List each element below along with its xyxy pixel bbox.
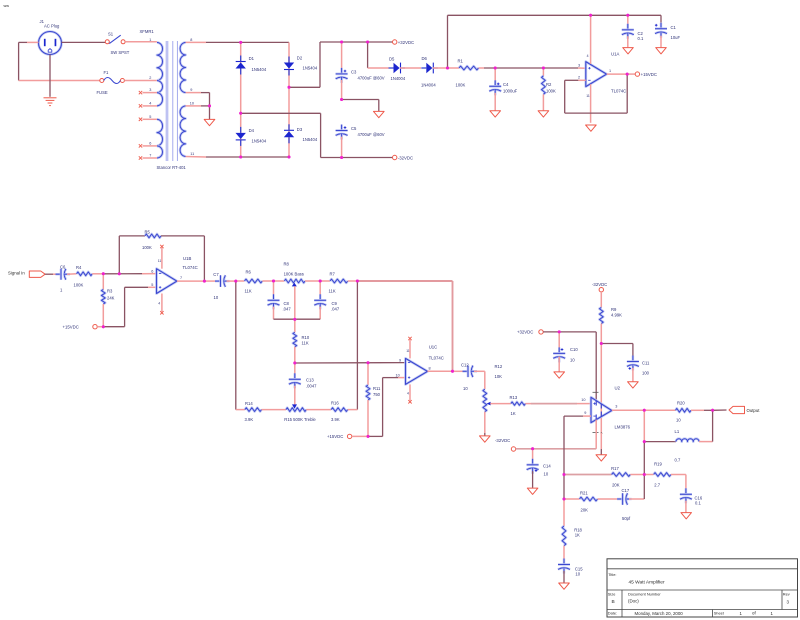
svg-text:3: 3 [149,88,151,92]
svg-text:7: 7 [180,276,182,280]
svg-text:-32VDC: -32VDC [398,155,413,160]
svg-text:Monday, March 20, 2000: Monday, March 20, 2000 [635,611,684,616]
svg-text:C7: C7 [213,272,219,277]
svg-text:U1C: U1C [429,344,438,349]
svg-text:B: B [612,599,615,605]
svg-text:4: 4 [407,392,409,396]
svg-text:C11: C11 [642,361,650,366]
svg-text:7: 7 [149,154,151,158]
svg-text:C8: C8 [284,301,290,306]
svg-text:100: 100 [642,370,650,375]
svg-text:D1: D1 [249,56,255,61]
svg-text:100K Bass: 100K Bass [284,271,304,276]
svg-text:R3: R3 [107,289,113,294]
svg-text:R19: R19 [654,462,662,467]
svg-text:R5: R5 [145,230,151,235]
svg-text:4700uF @60V: 4700uF @60V [358,132,385,137]
svg-text:R17: R17 [611,466,619,471]
svg-text:C9: C9 [332,301,338,306]
svg-text:100K: 100K [142,245,152,250]
svg-text:R7: R7 [330,272,336,277]
svg-text:TL074C: TL074C [429,356,444,361]
svg-text:D6: D6 [422,56,428,61]
svg-text:.047: .047 [283,306,292,311]
svg-text:1000uF: 1000uF [503,88,518,93]
svg-text:ww: ww [4,4,10,8]
svg-text:1N5404: 1N5404 [252,139,267,144]
svg-text:C13: C13 [306,377,314,382]
svg-text:5: 5 [151,283,153,287]
svg-text:5: 5 [149,115,151,119]
svg-text:L1: L1 [675,429,680,434]
svg-text:.0047: .0047 [306,383,317,388]
svg-text:1N5404: 1N5404 [252,67,267,72]
svg-text:C17: C17 [622,488,630,493]
svg-text:Signal In: Signal In [8,270,25,275]
svg-text:10uF: 10uF [671,35,681,40]
svg-text:(Doc): (Doc) [628,599,639,604]
svg-text:11K: 11K [245,289,252,294]
svg-text:1K: 1K [575,533,580,538]
svg-text:1N5404: 1N5404 [303,137,318,142]
svg-text:C10: C10 [570,347,578,352]
svg-text:C4: C4 [503,82,509,87]
svg-text:50pf: 50pf [622,516,631,521]
svg-text:Date:: Date: [608,610,617,615]
svg-text:10: 10 [570,357,575,362]
svg-text:XFMR1: XFMR1 [140,29,155,34]
svg-text:R11: R11 [373,386,381,391]
svg-text:11: 11 [586,94,590,98]
svg-text:R20: R20 [677,401,685,406]
svg-text:R4: R4 [76,265,82,270]
svg-text:4700uF @60V: 4700uF @60V [358,75,385,80]
svg-text:10: 10 [544,472,549,477]
svg-text:-32VDC: -32VDC [592,282,607,287]
svg-text:3: 3 [615,405,617,409]
svg-text:C5: C5 [351,126,357,131]
svg-text:U2: U2 [615,385,621,390]
svg-text:10: 10 [190,102,194,106]
svg-text:1: 1 [149,38,151,42]
svg-text:9: 9 [190,88,192,92]
svg-text:Stancor RT-401: Stancor RT-401 [157,165,187,170]
svg-text:S1: S1 [108,32,114,37]
svg-text:20K: 20K [612,483,620,488]
svg-text:8: 8 [190,38,192,42]
svg-text:Title:: Title: [608,572,616,577]
svg-text:100K: 100K [74,282,84,287]
svg-text:R8: R8 [284,262,290,267]
svg-text:LM3876: LM3876 [615,425,631,430]
svg-text:20K: 20K [581,507,589,512]
svg-text:2.7: 2.7 [654,483,660,488]
svg-text:R10: R10 [302,335,310,340]
svg-text:R1: R1 [458,58,464,63]
svg-text:10: 10 [214,295,219,300]
svg-text:24K: 24K [107,295,115,300]
svg-text:R12: R12 [495,364,503,369]
svg-text:+15VDC: +15VDC [641,72,657,77]
svg-text:8: 8 [429,367,431,371]
svg-text:4: 4 [158,302,160,306]
svg-text:Document Number: Document Number [628,592,661,597]
svg-text:AC Plug: AC Plug [44,24,60,29]
svg-text:Size: Size [608,592,616,597]
svg-text:+32VDC: +32VDC [517,330,533,335]
svg-text:+32VDC: +32VDC [398,40,414,45]
svg-text:.047: .047 [331,306,340,311]
svg-text:3: 3 [578,63,580,67]
svg-text:Output: Output [747,408,761,413]
svg-text:R21: R21 [580,491,588,496]
svg-text:C6: C6 [60,265,66,270]
svg-text:10: 10 [463,386,468,391]
svg-text:11K: 11K [329,289,336,294]
svg-text:D3: D3 [297,127,303,132]
svg-text:0.1: 0.1 [695,500,701,505]
svg-text:10: 10 [581,398,585,402]
svg-text:100K: 100K [456,82,466,87]
svg-text:R16: R16 [331,401,339,406]
svg-text:D2: D2 [297,55,303,60]
svg-text:11: 11 [158,259,162,263]
svg-text:1N5404: 1N5404 [303,66,318,71]
svg-text:Sheet: Sheet [714,610,725,615]
svg-text:R13: R13 [510,395,518,400]
svg-text:C3: C3 [351,69,357,74]
svg-text:C1: C1 [671,25,677,30]
svg-text:10: 10 [575,571,580,576]
svg-text:U1B: U1B [183,256,191,261]
svg-text:R14: R14 [245,401,253,406]
svg-text:D4: D4 [249,128,255,133]
svg-text:0.1: 0.1 [638,36,644,41]
svg-text:11: 11 [190,152,194,156]
svg-text:750: 750 [373,392,381,397]
svg-text:4: 4 [587,54,589,58]
svg-text:TL074C: TL074C [611,89,626,94]
svg-text:10: 10 [396,373,400,377]
svg-text:+15VDC: +15VDC [327,434,343,439]
svg-text:4.99K: 4.99K [611,312,622,317]
svg-text:9: 9 [399,358,401,362]
svg-text:C12: C12 [461,363,469,368]
svg-text:1N4004: 1N4004 [391,76,406,81]
svg-text:R15 500K Treble: R15 500K Treble [284,417,316,422]
svg-text:R2: R2 [546,82,552,87]
svg-text:F1: F1 [104,70,110,75]
svg-text:10: 10 [676,418,681,423]
svg-text:Rev: Rev [783,592,790,597]
svg-text:C14: C14 [543,464,551,469]
svg-text:+15VDC: +15VDC [63,325,79,330]
svg-text:TL074C: TL074C [183,265,198,270]
svg-text:10K: 10K [495,374,503,379]
svg-text:6: 6 [151,269,153,273]
svg-text:4: 4 [149,102,151,106]
svg-text:1K: 1K [511,411,516,416]
svg-text:6: 6 [149,142,151,146]
svg-text:FUSE: FUSE [97,90,108,95]
svg-text:45 Watt Amplifier: 45 Watt Amplifier [629,580,665,586]
svg-text:9: 9 [584,411,586,415]
svg-text:3.9K: 3.9K [331,417,340,422]
svg-text:3.9K: 3.9K [245,417,254,422]
svg-text:U1A: U1A [611,52,619,57]
svg-text:2: 2 [578,76,580,80]
svg-text:0.7: 0.7 [675,458,681,463]
svg-text:100K: 100K [546,88,556,93]
svg-text:1: 1 [609,69,611,73]
svg-text:D5: D5 [389,57,395,62]
svg-text:-32VDC: -32VDC [495,438,510,443]
svg-text:11K: 11K [302,340,309,345]
svg-text:R6: R6 [246,269,252,274]
svg-text:1N4004: 1N4004 [421,83,436,88]
svg-text:2: 2 [149,76,151,80]
svg-text:SW SPST: SW SPST [111,50,130,55]
svg-text:R9: R9 [611,307,617,312]
